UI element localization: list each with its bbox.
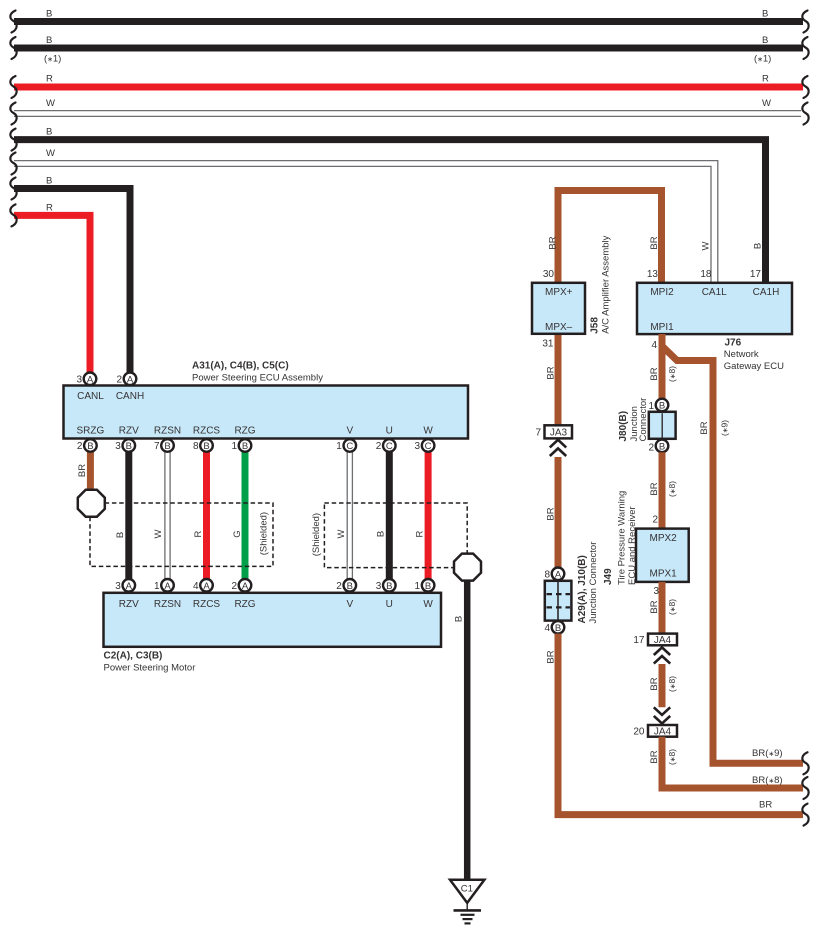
svg-text:B: B	[753, 243, 764, 249]
svg-text:B: B	[242, 441, 248, 452]
svg-text:BR: BR	[546, 507, 557, 520]
ECU J49 Tire Pressure Warning	[603, 491, 689, 585]
svg-text:A: A	[242, 581, 249, 592]
wire BR J80 pin2 to J49	[649, 452, 677, 528]
svg-text:BR(∗9): BR(∗9)	[752, 748, 783, 759]
svg-text:3: 3	[115, 441, 121, 452]
wire bus B row5 to CA1H pin17	[10, 127, 765, 283]
svg-text:B: B	[762, 9, 768, 20]
svg-text:BR: BR	[649, 677, 660, 690]
svg-text:8: 8	[544, 570, 550, 581]
svg-text:V: V	[346, 599, 353, 610]
svg-text:A: A	[87, 374, 94, 385]
wire bus R row3	[10, 74, 808, 99]
svg-text:A: A	[164, 581, 171, 592]
svg-text:BR: BR	[649, 482, 660, 495]
svg-text:RZV: RZV	[119, 426, 139, 437]
pin 3(A) RZV motor	[115, 579, 135, 592]
svg-text:17: 17	[750, 269, 762, 280]
svg-text:BR: BR	[546, 366, 557, 379]
svg-text:7: 7	[535, 428, 541, 439]
svg-text:B: B	[376, 531, 387, 537]
wire B shield drain to ground	[454, 567, 468, 879]
svg-text:(∗8): (∗8)	[667, 676, 677, 692]
svg-text:1: 1	[648, 401, 654, 412]
svg-text:MPI2: MPI2	[650, 287, 674, 298]
svg-text:C: C	[425, 441, 432, 452]
svg-text:Power Steering Motor: Power Steering Motor	[104, 663, 196, 674]
wire W V (hollow)	[336, 452, 352, 579]
svg-text:Network: Network	[724, 349, 759, 360]
svg-text:R: R	[762, 74, 769, 85]
svg-text:3: 3	[653, 586, 659, 597]
svg-text:J58: J58	[590, 317, 601, 334]
svg-text:(∗8): (∗8)	[667, 599, 677, 615]
svg-text:A: A	[203, 581, 210, 592]
svg-text:BR: BR	[649, 367, 660, 380]
svg-text:(∗8): (∗8)	[667, 366, 677, 382]
svg-text:B: B	[386, 581, 392, 592]
svg-text:31: 31	[542, 339, 554, 350]
svg-text:W: W	[46, 148, 55, 159]
wire BR(*8) JA4 pin20 to right break	[649, 737, 809, 799]
wire R W	[415, 452, 429, 579]
chevrons below JA4 pin17	[654, 647, 670, 663]
pin 1(A) RZSN motor	[154, 579, 174, 592]
svg-text:(Shielded): (Shielded)	[311, 513, 322, 556]
svg-text:2: 2	[336, 581, 342, 592]
svg-text:7: 7	[154, 441, 160, 452]
svg-text:2: 2	[231, 581, 237, 592]
svg-text:(∗1): (∗1)	[754, 54, 771, 65]
svg-text:1: 1	[336, 441, 342, 452]
svg-text:R: R	[415, 530, 426, 537]
svg-text:1: 1	[154, 581, 160, 592]
svg-text:B: B	[126, 441, 132, 452]
wire BR J58 pin31 to JA3	[542, 334, 558, 426]
svg-text:CANL: CANL	[77, 391, 104, 402]
svg-text:B: B	[46, 176, 52, 187]
chevrons below JA3	[550, 440, 566, 456]
svg-text:2: 2	[116, 375, 122, 386]
chevrons above JA4 pin20	[654, 707, 670, 723]
svg-text:W: W	[762, 98, 771, 109]
wire bus R row8 to CANL	[10, 203, 90, 373]
svg-text:JA4: JA4	[654, 635, 672, 646]
svg-text:MPI1: MPI1	[650, 322, 674, 333]
svg-text:B: B	[46, 127, 52, 138]
ECU A31 Power Steering ECU Assembly	[64, 361, 469, 439]
svg-text:W: W	[336, 529, 347, 538]
svg-text:B: B	[659, 401, 665, 412]
pin 7(B) RZSN	[154, 439, 174, 452]
svg-text:RZCS: RZCS	[193, 426, 221, 437]
svg-text:MPX2: MPX2	[650, 533, 678, 544]
svg-text:MPX1: MPX1	[650, 569, 678, 580]
svg-text:A/C Amplifier Assembly: A/C Amplifier Assembly	[601, 235, 612, 333]
svg-text:B: B	[762, 35, 768, 46]
wire BR(*9) branch from pin4 to right break	[662, 346, 809, 774]
svg-text:BR: BR	[649, 236, 660, 249]
pin 2(B) V motor	[336, 579, 356, 592]
shield dashed box left	[90, 503, 273, 566]
svg-text:CA1H: CA1H	[753, 287, 780, 298]
svg-text:W: W	[423, 599, 433, 610]
svg-text:A: A	[555, 569, 562, 580]
svg-text:1: 1	[415, 581, 421, 592]
svg-text:RZV: RZV	[119, 599, 139, 610]
svg-text:BR: BR	[649, 750, 660, 763]
svg-text:A29(A), J10(B): A29(A), J10(B)	[577, 555, 588, 623]
wire bus W row6 (hollow) to CA1L pin18	[10, 148, 717, 283]
svg-text:JA4: JA4	[654, 727, 672, 738]
svg-text:V: V	[346, 426, 353, 437]
ground C1	[450, 880, 484, 924]
svg-text:4: 4	[651, 340, 657, 351]
wire bus W row4 (hollow)	[10, 98, 808, 125]
wire W RZSN (hollow)	[153, 452, 170, 579]
svg-text:RZG: RZG	[234, 599, 255, 610]
junction connector JA3 pin7	[535, 425, 572, 438]
svg-text:B: B	[87, 441, 93, 452]
svg-text:W: W	[153, 529, 164, 538]
svg-text:4: 4	[193, 581, 199, 592]
pin 2(A) CANH	[116, 373, 136, 386]
connector J76 Network Gateway ECU	[637, 283, 792, 372]
svg-text:Gateway ECU: Gateway ECU	[724, 361, 784, 372]
svg-text:3: 3	[376, 581, 382, 592]
pin 2(B) SRZG	[77, 439, 97, 452]
svg-text:B: B	[115, 532, 126, 538]
svg-text:B: B	[425, 581, 431, 592]
pin 3(B) U motor	[376, 579, 396, 592]
pin 4(A) RZCS motor	[193, 579, 213, 592]
svg-text:J49: J49	[603, 568, 614, 585]
wire BR SRZG to shield octagon	[77, 452, 90, 491]
junction connector JA4 pin20	[633, 725, 677, 738]
svg-text:B: B	[454, 616, 465, 622]
svg-text:MPX+: MPX+	[545, 287, 573, 298]
svg-text:W: W	[423, 426, 433, 437]
svg-text:U: U	[386, 426, 393, 437]
connector J58 A/C Amplifier Assembly	[532, 235, 612, 333]
svg-text:MPX–: MPX–	[545, 322, 573, 333]
svg-text:(∗9): (∗9)	[720, 420, 730, 436]
svg-text:B: B	[46, 9, 52, 20]
svg-text:B: B	[203, 441, 209, 452]
svg-text:BR: BR	[546, 650, 557, 663]
svg-text:JA3: JA3	[550, 428, 568, 439]
svg-text:13: 13	[647, 269, 659, 280]
svg-text:RZSN: RZSN	[154, 426, 181, 437]
svg-text:Tire Pressure Warning: Tire Pressure Warning	[617, 491, 628, 585]
svg-text:(∗1): (∗1)	[44, 54, 61, 65]
wire BR loop MPX+ to MPI2	[543, 191, 662, 283]
svg-text:1: 1	[231, 441, 237, 452]
svg-text:30: 30	[543, 269, 555, 280]
svg-text:W: W	[46, 98, 55, 109]
wire G RZG	[232, 452, 245, 579]
wire B RZV	[115, 452, 129, 579]
pin 3(B) RZV	[115, 439, 135, 452]
motor C2(A) C3(B) Power Steering Motor	[104, 593, 442, 674]
svg-text:3: 3	[115, 581, 121, 592]
wire BR J49 pin3 to JA4	[649, 582, 677, 634]
svg-text:G: G	[232, 530, 243, 537]
svg-text:B: B	[555, 623, 561, 634]
svg-text:ECU and Receiver: ECU and Receiver	[627, 506, 638, 585]
pin 1(B) W motor	[415, 579, 435, 592]
svg-text:R: R	[46, 74, 53, 85]
wire R RZCS	[193, 452, 207, 579]
svg-text:A: A	[127, 374, 134, 385]
svg-text:2: 2	[652, 514, 658, 525]
svg-text:2: 2	[648, 443, 654, 454]
svg-text:Connector: Connector	[638, 398, 649, 442]
svg-text:(∗8): (∗8)	[667, 749, 677, 765]
svg-text:8: 8	[193, 441, 199, 452]
svg-text:2: 2	[77, 441, 83, 452]
svg-text:B: B	[347, 581, 353, 592]
svg-text:BR: BR	[77, 464, 88, 477]
svg-text:B: B	[659, 441, 665, 452]
svg-text:18: 18	[700, 269, 712, 280]
svg-text:BR: BR	[649, 600, 660, 613]
svg-text:(Shielded): (Shielded)	[259, 512, 270, 555]
wire BR JA4 to JA4	[649, 664, 677, 707]
junction connector JA4 pin17	[633, 634, 677, 647]
svg-text:RZG: RZG	[234, 426, 255, 437]
pin 3(C) W	[415, 439, 435, 452]
shield octagon left	[78, 490, 105, 517]
svg-text:R: R	[46, 203, 53, 214]
svg-text:R: R	[193, 530, 204, 537]
pin 1(B) RZG	[231, 439, 251, 452]
svg-text:3: 3	[415, 441, 421, 452]
svg-text:C: C	[386, 441, 393, 452]
junction connector J80(B)	[618, 398, 676, 454]
wire bus B row7 to CANH	[10, 176, 130, 373]
shield octagon right	[454, 554, 481, 581]
svg-text:2: 2	[376, 441, 382, 452]
svg-text:3: 3	[76, 375, 82, 386]
svg-text:(∗8): (∗8)	[667, 481, 677, 497]
svg-text:20: 20	[633, 727, 645, 738]
wire BR JA3 to A29 pin8	[546, 457, 559, 568]
svg-text:B: B	[164, 441, 170, 452]
svg-text:A31(A), C4(B), C5(C): A31(A), C4(B), C5(C)	[192, 361, 289, 372]
svg-text:Power Steering ECU Assembly: Power Steering ECU Assembly	[192, 373, 323, 384]
svg-text:CANH: CANH	[116, 391, 144, 402]
pin 8(B) RZCS	[193, 439, 213, 452]
svg-text:BR(∗8): BR(∗8)	[752, 775, 783, 786]
wire BR A29 pin4 to bottom break	[546, 634, 809, 826]
shield dashed box right	[311, 503, 467, 568]
svg-text:C1: C1	[461, 884, 473, 895]
svg-text:W: W	[701, 241, 712, 250]
svg-text:RZCS: RZCS	[193, 599, 221, 610]
svg-text:RZSN: RZSN	[154, 599, 181, 610]
wire B U	[376, 452, 390, 579]
svg-text:17: 17	[633, 635, 645, 646]
pin 1(C) V	[336, 439, 356, 452]
svg-text:A: A	[126, 581, 133, 592]
wire bus B row1	[10, 9, 808, 33]
svg-text:C: C	[346, 441, 353, 452]
svg-text:U: U	[386, 599, 393, 610]
svg-text:BR: BR	[759, 800, 772, 811]
wire bus B row2 (*1)	[10, 35, 808, 65]
svg-text:BR: BR	[548, 236, 559, 249]
svg-text:J80(B): J80(B)	[618, 411, 629, 442]
junction connector A29(A) J10(B)	[544, 542, 599, 634]
svg-text:BR: BR	[699, 421, 710, 434]
svg-text:4: 4	[544, 623, 550, 634]
pin 2(A) RZG motor	[231, 579, 251, 592]
svg-text:CA1L: CA1L	[702, 287, 727, 298]
svg-text:Junction Connector: Junction Connector	[588, 542, 599, 624]
pin 2(C) U	[376, 439, 396, 452]
svg-text:J76: J76	[725, 338, 742, 349]
svg-text:B: B	[46, 35, 52, 46]
svg-text:SRZG: SRZG	[77, 426, 105, 437]
pin 3(A) CANL	[76, 373, 96, 386]
svg-text:C2(A), C3(B): C2(A), C3(B)	[104, 651, 163, 662]
wire BR J76 pin4 down to J80	[649, 334, 677, 399]
